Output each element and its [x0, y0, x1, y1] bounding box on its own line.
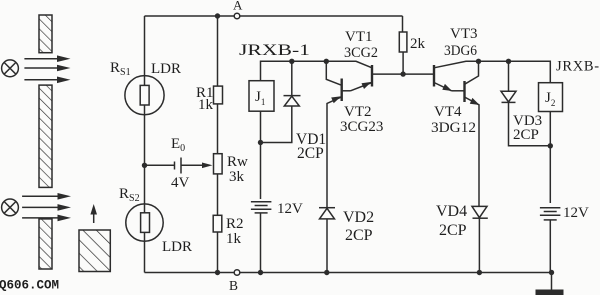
- battery 12V left: [251, 201, 272, 203]
- svg-text:LDR: LDR: [151, 61, 181, 77]
- svg-text:3CG23: 3CG23: [340, 119, 383, 135]
- wire: mid rail left segment: [261, 61, 373, 80]
- svg-text:VT3: VT3: [450, 26, 478, 42]
- svg-text:3DG6: 3DG6: [444, 43, 477, 59]
- ground bar: [536, 290, 564, 295]
- svg-text:1k: 1k: [198, 97, 214, 113]
- node dots bottom rail: [215, 270, 220, 275]
- svg-text:3CG2: 3CG2: [344, 45, 378, 61]
- node dot base line: [400, 71, 405, 76]
- svg-text:JRXB-1: JRXB-1: [239, 42, 310, 59]
- resistor R2: [213, 215, 222, 232]
- wire: mid rail right segment: [479, 61, 551, 82]
- wire: J2 bottom: [549, 112, 551, 204]
- wire: J1 bottom: [260, 111, 262, 199]
- svg-text:12V: 12V: [277, 201, 303, 217]
- svg-text:LDR: LDR: [162, 239, 192, 255]
- wall upper segment (hatched): [39, 15, 52, 53]
- potentiometer Rw: [214, 154, 223, 174]
- wire: E0 to Rw wiper (arrow): [181, 164, 204, 166]
- wire: battery left bottom: [260, 213, 262, 273]
- relay coil J2: [539, 83, 563, 112]
- svg-text:A: A: [233, 0, 243, 13]
- svg-text:VD4: VD4: [436, 203, 467, 220]
- wall middle segment (hatched): [39, 85, 52, 187]
- moving object arrow (up): [93, 212, 95, 223]
- diode VD1 (cathode up): [291, 61, 293, 95]
- svg-text:3k: 3k: [229, 169, 245, 185]
- battery E0 4V: [174, 162, 176, 170]
- svg-text:12V: 12V: [563, 205, 589, 221]
- wire: left bridge vertical (top): [144, 16, 146, 76]
- node dot VD1 top: [289, 59, 294, 64]
- svg-text:VT4: VT4: [434, 104, 462, 120]
- svg-text:VD2: VD2: [343, 209, 374, 226]
- node dot J1/VD1 bottom: [258, 140, 263, 145]
- wire: Rs1 bottom to tap: [144, 115, 146, 204]
- moving object block (hatched): [79, 230, 110, 272]
- transistor VT1 (PNP): [371, 65, 373, 87]
- node dot A-R1: [215, 13, 220, 18]
- svg-text:2k: 2k: [410, 36, 426, 52]
- svg-text:3DG12: 3DG12: [431, 120, 476, 136]
- light arrows upper: [24, 55, 70, 83]
- svg-text:Rw: Rw: [227, 154, 248, 170]
- wire: R2 to bottom rail: [217, 232, 219, 273]
- svg-text:VT2: VT2: [344, 104, 372, 120]
- light arrows lower: [22, 193, 71, 221]
- wall lower segment (hatched): [39, 219, 52, 269]
- wire: Rw to R2: [217, 174, 219, 215]
- svg-text:R2: R2: [226, 216, 244, 232]
- lamp symbol lower (circle with X): [2, 199, 19, 216]
- terminal B: [234, 270, 240, 276]
- node dot VT3/VT4 collectors: [476, 59, 481, 64]
- wire: R1 branch vertical: [217, 16, 219, 86]
- diode VD3 (cathode down): [508, 61, 510, 91]
- LDR Rs2: [126, 204, 163, 241]
- ground stub: [551, 273, 553, 290]
- node dot VT1/VT2 collectors: [324, 59, 329, 64]
- svg-text:2CP: 2CP: [513, 127, 539, 143]
- svg-text:B: B: [229, 278, 238, 293]
- diode VD2 (cathode up): [319, 207, 335, 209]
- svg-text:4V: 4V: [171, 175, 190, 191]
- svg-text:VT1: VT1: [345, 29, 373, 45]
- svg-text:JRXB-1: JRXB-1: [556, 59, 600, 75]
- wire: top rail A: [145, 15, 403, 17]
- node dot J2/VD3 bottom: [548, 143, 553, 148]
- svg-text:2CP: 2CP: [345, 227, 373, 244]
- transistor VT3 (NPN): [433, 65, 435, 87]
- lamp symbol upper (circle with X): [2, 60, 19, 77]
- LDR Rs1: [125, 76, 164, 115]
- svg-text:2CP: 2CP: [439, 222, 467, 239]
- diode VD4 (cathode down): [472, 206, 487, 217]
- wire: R1 to Rw: [217, 104, 219, 154]
- resistor 2k: [402, 16, 404, 32]
- battery 12V right: [540, 207, 561, 209]
- transistor VT4 (NPN): [463, 81, 465, 102]
- resistor R1: [214, 86, 223, 104]
- wire: Rs2 bottom to bottom rail: [144, 241, 146, 272]
- node dot VD3 top: [506, 59, 511, 64]
- terminal A: [234, 13, 240, 19]
- svg-text:2CP: 2CP: [297, 145, 324, 162]
- wire: battery right bottom: [549, 220, 551, 273]
- wire: bottom rail B: [145, 272, 552, 274]
- relay coil J1: [249, 81, 274, 112]
- svg-text:Q606.COM: Q606.COM: [0, 279, 59, 293]
- wire: bridge tap to battery E0: [145, 164, 175, 166]
- node dot bridge tap: [142, 163, 147, 168]
- transistor VT2 (PNP): [341, 79, 343, 102]
- svg-text:1k: 1k: [226, 231, 242, 247]
